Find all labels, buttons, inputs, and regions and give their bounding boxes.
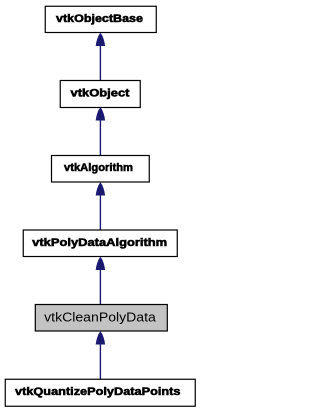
arrowhead to vtkCleanPolyData [96, 331, 105, 344]
wire arrow vtkPolyDataAlgorithm to vtkAlgorithm [99, 196, 101, 231]
class box vtkQuantizePolyDataPoints [5, 379, 195, 406]
svg-text:vtkObjectBase: vtkObjectBase [56, 13, 143, 25]
wire arrow vtkAlgorithm to vtkObject [99, 121, 101, 156]
wire arrow vtkQuantizePolyDataPoints to vtkCleanPolyData [99, 345, 101, 380]
svg-text:vtkCleanPolyData: vtkCleanPolyData [44, 310, 157, 325]
class box vtkAlgorithm [52, 156, 150, 183]
svg-text:vtkObject: vtkObject [71, 87, 130, 99]
wire arrow vtkCleanPolyData to vtkPolyDataAlgorithm [99, 270, 101, 304]
arrowhead to vtkObject [96, 107, 105, 120]
arrowhead to vtkAlgorithm [96, 182, 105, 195]
wire arrow vtkObject to vtkObjectBase [99, 46, 101, 80]
class box vtkCleanPolyData (current, grey) [35, 305, 167, 332]
svg-text:vtkQuantizePolyDataPoints: vtkQuantizePolyDataPoints [15, 386, 180, 398]
svg-text:vtkPolyDataAlgorithm: vtkPolyDataAlgorithm [32, 237, 167, 249]
arrowhead to vtkPolyDataAlgorithm [96, 257, 105, 270]
class box vtkObjectBase [45, 6, 156, 32]
class box vtkPolyDataAlgorithm [23, 230, 177, 257]
arrowhead to vtkObjectBase [96, 33, 105, 46]
svg-text:vtkAlgorithm: vtkAlgorithm [64, 162, 133, 174]
class box vtkObject [60, 81, 140, 108]
